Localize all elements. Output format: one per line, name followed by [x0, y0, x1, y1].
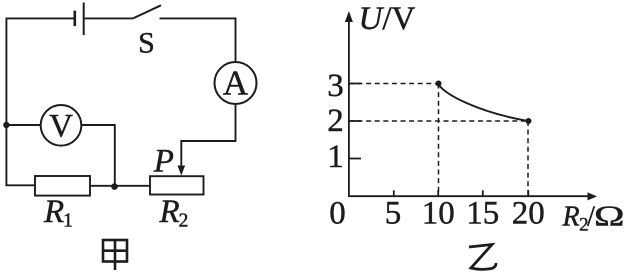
- junction node between R1 and R2: [111, 183, 118, 190]
- svg-text:P: P: [153, 143, 174, 179]
- rheostat R2 box: [150, 176, 204, 194]
- y tick 2: [349, 120, 361, 122]
- svg-text:U/V: U/V: [359, 1, 416, 37]
- x tick 20: [527, 190, 529, 196]
- curve U vs R2: [439, 84, 529, 122]
- switch S blade: [133, 5, 161, 18]
- svg-text:V: V: [49, 108, 73, 144]
- dashed line R2=10: [438, 84, 440, 197]
- wire left loop (top-left, left side, bottom-left): [6, 18, 74, 185]
- battery positive plate (long): [83, 3, 85, 36]
- wire voltmeter branch left: [6, 124, 40, 126]
- x-axis arrowhead: [588, 192, 598, 200]
- slider arrowhead P: [178, 166, 186, 176]
- y-axis arrowhead: [345, 11, 353, 22]
- svg-text:5: 5: [385, 196, 402, 232]
- x tick 10: [437, 190, 439, 196]
- dashed line U=2: [349, 120, 528, 122]
- battery negative plate (short): [74, 11, 77, 27]
- x tick 5: [393, 190, 395, 196]
- wire R1 to R2: [90, 185, 150, 187]
- label yi (graph title): [469, 245, 496, 270]
- y tick 1: [349, 158, 361, 160]
- svg-text:3: 3: [327, 68, 344, 104]
- y tick 3: [349, 83, 361, 85]
- dashed line U=3: [349, 83, 439, 85]
- x tick 15: [482, 190, 484, 196]
- dashed line R2=20: [527, 121, 529, 196]
- wire ammeter to slider corner: [181, 104, 235, 167]
- svg-text:1: 1: [327, 139, 344, 175]
- resistor R1 box: [35, 176, 90, 196]
- svg-text:A: A: [223, 64, 249, 103]
- wire battery to switch: [85, 17, 133, 19]
- svg-text:15: 15: [466, 196, 499, 232]
- junction node left: [3, 122, 9, 128]
- svg-text:R2/: R2/: [562, 201, 596, 235]
- svg-text:20: 20: [512, 196, 545, 232]
- label jia (circuit title): [103, 240, 127, 270]
- data point (10,3): [436, 81, 442, 87]
- svg-text:10: 10: [422, 196, 455, 232]
- voltmeter U2 circle: [41, 105, 82, 146]
- graph y-axis: [348, 20, 350, 196]
- svg-text:Ω: Ω: [594, 200, 625, 232]
- wire switch to ammeter: [160, 18, 236, 62]
- svg-text:0: 0: [329, 196, 346, 232]
- data point (20,2): [526, 118, 532, 124]
- svg-text:2: 2: [327, 103, 344, 139]
- wire voltmeter branch right: [81, 125, 115, 186]
- svg-text:R2: R2: [159, 194, 189, 232]
- graph x-axis: [348, 195, 588, 197]
- svg-text:S: S: [138, 27, 155, 60]
- ammeter U1 circle: [215, 62, 257, 104]
- svg-text:R1: R1: [43, 194, 73, 232]
